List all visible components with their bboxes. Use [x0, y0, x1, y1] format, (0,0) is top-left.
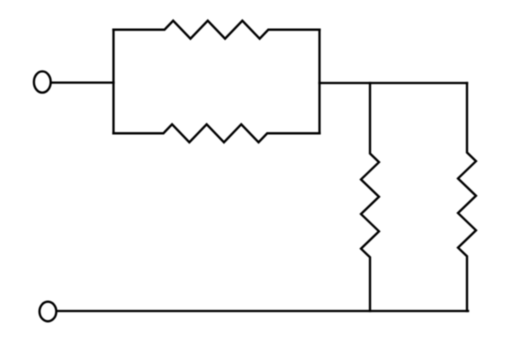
terminal T1 (input, top-left open circle) [34, 71, 51, 92]
resistor R3 (left vertical zigzag) [361, 83, 379, 311]
resistor R1 (top horizontal zigzag) [114, 21, 320, 39]
resistor R4 (right vertical zigzag) [458, 83, 476, 311]
wire from T1 to parallel block [51, 81, 113, 83]
wire middle horizontal from node B to right branch [320, 82, 468, 84]
wire right vertical of parallel loop (node B) [318, 30, 320, 134]
wire left vertical of parallel loop (node A) [112, 30, 114, 134]
resistor R2 (bottom horizontal zigzag) [114, 124, 320, 142]
wire bottom return from T2 to right branch [57, 310, 468, 312]
terminal T2 (input, bottom-left open circle) [40, 302, 57, 322]
